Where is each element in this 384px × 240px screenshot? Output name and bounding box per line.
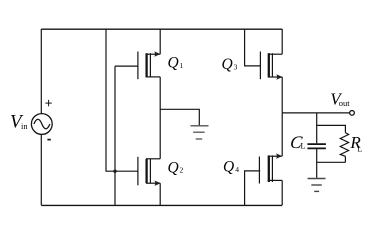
- wire: Q2 source down to bottom rail: [159, 183, 161, 205]
- capacitor CL: [307, 144, 326, 148]
- label CL: [289, 132, 305, 152]
- svg-text:Q: Q: [222, 56, 233, 73]
- svg-text:L: L: [357, 145, 362, 154]
- wire: input line A from top rail down to Q2 gate wire: [106, 29, 115, 171]
- svg-text:Q: Q: [168, 159, 179, 176]
- wire: bottom link CL to RL: [317, 161, 346, 163]
- node: Vout open terminal: [350, 111, 355, 116]
- wire: top rail: [41, 28, 282, 30]
- wire: CL branch from output wire: [316, 113, 318, 143]
- label RL: [349, 133, 362, 153]
- resistor RL: [340, 133, 348, 157]
- minus polarity mark: [47, 139, 50, 141]
- transistor Q4: [259, 153, 282, 183]
- svg-text:out: out: [339, 98, 351, 108]
- wire: Q1 drain up to top rail: [159, 29, 161, 54]
- node: junction dot at gate line crossing: [113, 170, 116, 173]
- svg-text:1: 1: [180, 61, 184, 70]
- svg-text:4: 4: [235, 165, 239, 174]
- transistor Q1: [138, 51, 161, 79]
- svg-text:Q: Q: [223, 158, 234, 175]
- svg-text:Q: Q: [168, 54, 179, 71]
- wire: Q3 source down to output node: [281, 77, 283, 156]
- wire: Q1 bottom to Q2 top: [159, 77, 161, 159]
- wire: RL bottom lead: [344, 156, 346, 162]
- label Q1: [168, 54, 184, 71]
- svg-text:in: in: [21, 121, 28, 131]
- wire: CL node to RL top: [317, 125, 346, 132]
- svg-text:L: L: [300, 141, 305, 151]
- voltage source Vin: [31, 114, 52, 135]
- wire: Q4 bottom to bottom rail: [281, 180, 283, 205]
- wire: Q3 drain up to top rail: [281, 29, 283, 54]
- label Vin: [10, 112, 28, 133]
- wire: output node to Vout terminal: [282, 112, 350, 114]
- ground (load): [308, 179, 326, 192]
- wire: Q4 gate from bottom rail: [245, 171, 261, 205]
- wire: bottom rail: [41, 204, 282, 206]
- transistor Q2: [138, 157, 161, 186]
- label Vout: [330, 89, 350, 108]
- wire: CL bottom to ground node: [316, 148, 318, 178]
- wire: Q1 gate lead: [115, 65, 138, 67]
- ground (middle): [191, 126, 209, 139]
- wire: Q3 gate from top rail: [245, 29, 261, 66]
- transistor Q3: [260, 52, 282, 80]
- label Q4: [223, 158, 239, 175]
- wire: left rail lower (Vin- to bottom rail): [40, 134, 42, 205]
- label Q2: [168, 159, 184, 176]
- wire: Q2 gate lead: [115, 170, 138, 172]
- wire: gate line B (Q1 gate corner down to bottom rail): [114, 66, 116, 205]
- svg-text:2: 2: [180, 166, 184, 175]
- label Q3: [222, 56, 238, 73]
- svg-text:3: 3: [234, 62, 238, 71]
- wire: mid node to ground: [160, 109, 199, 125]
- wire: left rail upper (Vin+ to top rail): [40, 29, 42, 114]
- plus polarity mark: [45, 100, 51, 106]
